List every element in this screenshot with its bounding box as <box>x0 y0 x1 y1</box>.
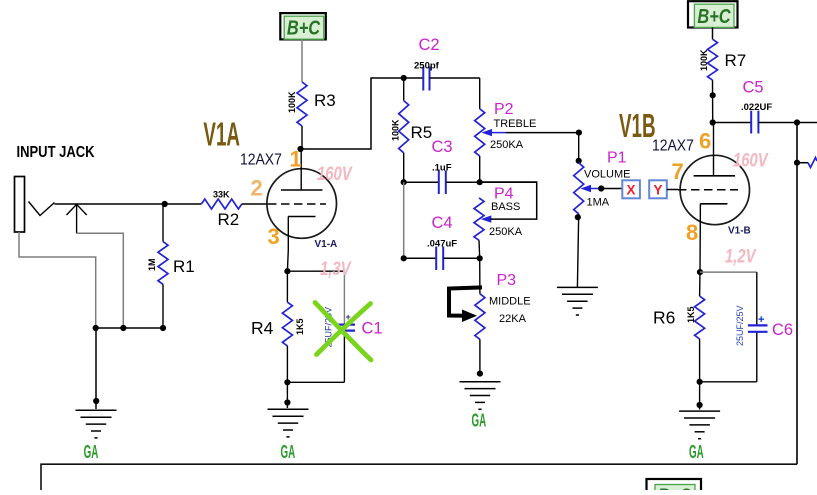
wire Y to V1B grid <box>667 189 678 191</box>
wire node B to C3 <box>404 181 439 183</box>
svg-text:V1-A: V1-A <box>315 239 338 250</box>
svg-text:P3: P3 <box>497 272 517 289</box>
svg-text:R2: R2 <box>218 210 240 229</box>
svg-text:R3: R3 <box>314 91 336 110</box>
node above ground GA1 <box>93 398 99 404</box>
svg-text:P1: P1 <box>607 150 627 167</box>
svg-text:INPUT JACK: INPUT JACK <box>17 144 96 161</box>
svg-text:B+C: B+C <box>658 484 692 490</box>
wire to ground GA4 <box>699 382 701 410</box>
node input/R1 junction <box>162 201 168 207</box>
connector X <box>622 180 640 198</box>
power B+C (bottom, partial) <box>647 479 702 495</box>
svg-text:250KA: 250KA <box>489 226 523 238</box>
svg-text:1M: 1M <box>147 258 157 271</box>
P2 wiper arrow <box>482 129 493 136</box>
svg-text:VOLUME: VOLUME <box>584 169 630 181</box>
wire ground bus horizontal <box>96 327 163 329</box>
capacitor C3 .1uF <box>438 171 440 195</box>
resistor R1 <box>162 204 164 242</box>
svg-text:.047uF: .047uF <box>427 239 457 250</box>
wire R2 to V1A grid <box>242 203 268 205</box>
node plate/C5 <box>710 119 716 125</box>
svg-text:B+C: B+C <box>287 16 321 39</box>
svg-text:R7: R7 <box>725 51 747 70</box>
svg-text:2: 2 <box>251 176 263 201</box>
svg-text:R1: R1 <box>173 257 195 276</box>
svg-text:.022UF: .022UF <box>741 102 772 113</box>
wire jack sleeve to ground bus <box>19 232 96 328</box>
svg-text:C5: C5 <box>743 79 764 97</box>
node C5/right rail <box>794 119 800 125</box>
P1 wiper arrow <box>581 185 592 192</box>
resistor R4 1K5 <box>286 271 288 302</box>
svg-text:GA: GA <box>281 443 296 463</box>
resistor R5 100K <box>403 78 405 101</box>
resistor (off-edge) stub <box>808 158 817 168</box>
resistor R3 100K <box>297 82 307 126</box>
ground GA3 <box>460 381 501 383</box>
node cathode V1B <box>697 269 703 275</box>
node P4 bottom / P3 top <box>477 255 483 261</box>
svg-text:GA: GA <box>689 443 704 463</box>
wire bus down to ground GA1 <box>95 328 97 409</box>
V1A plate <box>281 189 323 191</box>
svg-text:160V: 160V <box>317 163 353 184</box>
node plate/R3 <box>297 146 303 152</box>
wire ring contact down to bus <box>77 233 124 328</box>
wire R4 bottom bus <box>287 381 344 383</box>
P4 wiper arrow + loop to top <box>481 215 492 222</box>
svg-text:GA: GA <box>472 412 487 432</box>
svg-text:C3: C3 <box>432 138 453 156</box>
svg-text:1,3V: 1,3V <box>320 258 352 279</box>
potentiometer P1 VOLUME 1MA <box>578 133 580 163</box>
svg-text:100K: 100K <box>699 49 709 71</box>
V1A grid (dashed) <box>268 203 326 205</box>
node volume top corner <box>576 130 582 136</box>
svg-text:.1uF: .1uF <box>432 163 452 174</box>
resistor R2 33K <box>201 199 241 209</box>
wire R6 bottom bus <box>700 381 757 383</box>
input jack J1 body <box>15 177 25 233</box>
tube V1B envelope <box>680 155 749 224</box>
capacitor C4 .047uF <box>403 182 405 258</box>
potentiometer P2 TREBLE 250KA <box>479 78 481 109</box>
ground GA1 <box>76 409 117 411</box>
svg-text:R4: R4 <box>251 318 274 338</box>
wire plate node to tone stack <box>301 78 404 149</box>
svg-text:C2: C2 <box>419 36 440 54</box>
wire node A to C2 <box>404 77 423 79</box>
svg-text:3: 3 <box>268 224 280 249</box>
node B R5 bottom <box>401 179 407 185</box>
svg-text:C4: C4 <box>432 214 453 232</box>
input jack tip contact <box>29 202 55 216</box>
V1B cathode <box>700 203 727 205</box>
node ring/bus <box>120 325 126 331</box>
svg-text:TREBLE: TREBLE <box>494 118 537 130</box>
deleted-mark green X over C1 <box>315 303 371 361</box>
V1B grid (dashed) <box>678 189 738 191</box>
svg-text:6: 6 <box>699 129 711 154</box>
resistor R6 1K5 <box>699 272 701 296</box>
svg-text:C1: C1 <box>362 320 383 338</box>
svg-text:100K: 100K <box>391 119 401 141</box>
svg-text:100K: 100K <box>287 91 297 113</box>
capacitor C2 250pf <box>422 67 424 91</box>
svg-text:GA: GA <box>84 443 99 463</box>
svg-text:C6: C6 <box>772 321 793 339</box>
V1B plate <box>694 175 736 177</box>
node R6 bottom <box>697 379 703 385</box>
node above ground GA4 <box>697 402 703 408</box>
node P3 bottom <box>477 371 483 377</box>
ground GA2 <box>268 408 309 410</box>
wire to C5 <box>713 122 751 124</box>
capacitor C1 plates <box>339 324 356 326</box>
ground GA4 <box>679 410 720 412</box>
svg-text:B+C: B+C <box>697 4 731 27</box>
svg-text:R5: R5 <box>411 123 433 142</box>
capacitor C6 branch <box>700 271 757 273</box>
wire B+C to R7 <box>712 28 714 40</box>
svg-text:P2: P2 <box>494 101 514 118</box>
wire tap to edge resistor <box>797 162 808 164</box>
svg-text:250KA: 250KA <box>490 139 524 151</box>
wire input signal horizontal <box>55 203 202 205</box>
node below R7 <box>710 92 716 98</box>
P3 hand-drawn wiper arrow (thick) <box>449 288 480 316</box>
svg-text:1,2V: 1,2V <box>725 246 757 267</box>
node above ground GA2 <box>284 399 290 405</box>
capacitor C1 branch wires <box>287 270 344 272</box>
svg-text:7: 7 <box>672 159 684 184</box>
svg-text:22KA: 22KA <box>499 313 527 325</box>
input jack ring contact arrow <box>67 204 87 233</box>
svg-text:V1B: V1B <box>619 108 656 145</box>
node P2 bottom / P4 top <box>477 179 483 185</box>
wire to ground GA2 <box>286 382 288 408</box>
svg-text:250pf: 250pf <box>414 61 440 72</box>
svg-text:Y: Y <box>653 183 662 198</box>
power B+C (right) <box>688 1 738 27</box>
wire C2 to P2 top <box>430 77 480 79</box>
svg-text:12AX7: 12AX7 <box>240 152 282 169</box>
svg-text:8: 8 <box>686 220 698 245</box>
svg-text:R6: R6 <box>653 308 675 328</box>
capacitor C6 plates <box>748 324 768 326</box>
svg-text:MIDDLE: MIDDLE <box>489 296 531 308</box>
node A top of R5 <box>401 75 407 81</box>
svg-text:X: X <box>626 183 635 198</box>
svg-text:25UF/25V: 25UF/25V <box>735 305 745 346</box>
svg-text:P4: P4 <box>494 186 514 203</box>
svg-text:1K5: 1K5 <box>686 306 696 323</box>
ground (volume) <box>557 286 598 288</box>
svg-text:V1-B: V1-B <box>728 226 751 237</box>
wire C5 to right rail <box>758 122 817 124</box>
wire bottom frame horizontal <box>41 464 797 490</box>
wire C3 to P2 bottom node <box>446 181 537 183</box>
wire B+C to R3 <box>301 40 303 83</box>
node R1 bottom <box>160 325 166 331</box>
capacitor C5 .022UF <box>750 111 752 134</box>
svg-text:+: + <box>758 314 764 326</box>
potentiometer P3 MIDDLE 22KA <box>479 258 481 294</box>
svg-text:BASS: BASS <box>491 201 520 213</box>
svg-text:1MA: 1MA <box>587 197 610 209</box>
resistor R7 100K <box>708 39 718 80</box>
node R4 bottom <box>284 379 290 385</box>
wire cathode V1A down <box>286 250 289 271</box>
node right rail tap <box>794 160 800 166</box>
node cathode V1A <box>284 268 290 274</box>
wire right vertical rail from C5 node down <box>796 123 798 465</box>
svg-text:1K5: 1K5 <box>295 318 305 335</box>
svg-text:160V: 160V <box>733 150 769 171</box>
svg-text:V1A: V1A <box>203 116 240 153</box>
connector Y <box>649 180 667 198</box>
svg-text:12AX7: 12AX7 <box>652 138 694 155</box>
tube V1A envelope <box>267 169 337 239</box>
potentiometer P4 BASS 250KA <box>474 198 484 240</box>
node sleeve/bus <box>93 325 99 331</box>
V1A cathode <box>288 216 316 218</box>
power B+C (top) <box>280 13 326 39</box>
svg-text:33K: 33K <box>213 190 230 200</box>
